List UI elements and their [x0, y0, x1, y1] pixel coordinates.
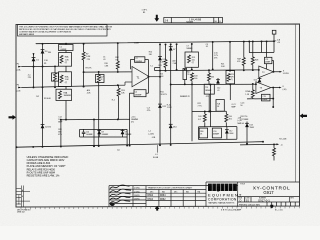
svg-text:C10: C10	[213, 131, 216, 133]
svg-text:(7): (7)	[65, 62, 68, 64]
notice box top-left	[18, 25, 108, 36]
wire C2 loop	[130, 60, 148, 94]
diode D12A	[216, 78, 220, 84]
svg-text:7.7%: 7.7%	[198, 105, 202, 107]
svg-text:1/8/65: 1/8/65	[134, 199, 140, 201]
wire left vertical V33	[33, 54, 35, 88]
diode D12	[225, 127, 229, 140]
svg-text:C17 MMF: C17 MMF	[241, 119, 250, 121]
svg-text:1.0MMF: 1.0MMF	[60, 49, 68, 51]
svg-text:l: l	[234, 185, 236, 192]
svg-text:d: d	[208, 185, 212, 192]
diode D10	[158, 57, 162, 61]
svg-text:680: 680	[183, 96, 186, 98]
svg-text:i: i	[213, 185, 215, 192]
svg-text:D: D	[240, 198, 242, 202]
svg-text:NUMBER: NUMBER	[186, 22, 194, 24]
svg-text:i: i	[222, 185, 224, 192]
svg-text:1 OF 1: 1 OF 1	[142, 10, 148, 12]
wire T3 out	[271, 87, 279, 89]
svg-text:(7): (7)	[192, 62, 195, 64]
svg-text:(-10): (-10)	[283, 89, 287, 91]
svg-text:(+)10: (+)10	[238, 120, 242, 122]
svg-text:R15: R15	[159, 65, 162, 67]
border frame	[16, 24, 300, 207]
resistor R7	[82, 44, 85, 87]
diode D9	[121, 129, 125, 137]
wire H6	[60, 118, 129, 121]
svg-text:T-1: T-1	[150, 65, 153, 67]
diode D13	[245, 122, 249, 144]
wire C4 loop	[130, 92, 149, 94]
svg-text:CORPORATION: CORPORATION	[208, 198, 237, 202]
wire V213	[212, 42, 214, 69]
svg-text:1.7K4: 1.7K4	[167, 107, 172, 109]
svg-text:R28: R28	[255, 60, 258, 62]
wire T19 stub	[208, 94, 210, 111]
wire pair lines	[80, 129, 128, 145]
svg-text:R-1: R-1	[112, 100, 115, 102]
resistor R29	[251, 84, 254, 99]
svg-text:L-1: L-1	[148, 131, 151, 133]
resistor R12	[116, 43, 119, 72]
wire left vertical V42 bottom	[42, 87, 44, 147]
svg-text:CONTENT MADE BY DIGITAL EQUIPM: CONTENT MADE BY DIGITAL EQUIPMENT CORPOR…	[19, 31, 72, 34]
svg-text:1-10TH: 1-10TH	[283, 73, 290, 75]
svg-text:39.1: 39.1	[229, 119, 233, 121]
svg-text:L-1: L-1	[155, 154, 158, 156]
registration arrow right border (left-pointing)	[300, 114, 308, 119]
resistor R27	[251, 42, 254, 71]
svg-text:A17: A17	[187, 71, 190, 74]
wire V261	[261, 41, 263, 52]
wire F2 line	[22, 85, 118, 87]
svg-text:100MMF: 100MMF	[86, 134, 93, 136]
wire V98	[84, 72, 132, 146]
conversion chart	[146, 189, 206, 191]
svg-text:R9 27K: R9 27K	[86, 68, 93, 70]
ink blot	[110, 203, 115, 206]
title section	[206, 181, 300, 183]
approvals + chart top edge	[109, 185, 238, 187]
svg-text:1.0M: 1.0M	[86, 56, 91, 58]
wire V129	[129, 119, 131, 145]
output arrow H6 node	[277, 143, 280, 145]
resistor box R30	[199, 128, 207, 138]
svg-text:RESISTORS ARE 1/4W, 1%: RESISTORS ARE 1/4W, 1%	[27, 174, 60, 178]
approval rows	[109, 188, 146, 190]
wire V230	[229, 84, 231, 100]
potentiometer R23 box	[229, 42, 231, 71]
node J1 tap	[156, 145, 158, 153]
diode D7	[169, 47, 173, 51]
capacitor C11	[265, 57, 272, 63]
resistor R26A	[225, 111, 228, 126]
diode D8	[97, 129, 101, 137]
wire H13	[199, 138, 237, 140]
svg-text:MAYNARD. MASSACHUSETTS: MAYNARD. MASSACHUSETTS	[209, 201, 236, 204]
resistor R20	[208, 70, 211, 84]
svg-text:C11: C11	[265, 59, 268, 61]
svg-text:240: 240	[149, 54, 152, 56]
left edge of approvals table	[108, 186, 110, 207]
bottom ruler ticks	[21, 206, 299, 209]
svg-text:750MMF: 750MMF	[125, 134, 132, 136]
svg-text:REPRODUCED OR PROPRIETARY OF N: REPRODUCED OR PROPRIETARY OF NATURE AND …	[19, 28, 112, 31]
capacitor C2	[135, 57, 145, 63]
diode D2	[41, 125, 45, 129]
wire H8 left up	[248, 42, 250, 53]
svg-text:180MMF: 180MMF	[64, 95, 72, 97]
capacitor C13	[262, 94, 271, 101]
potentiometer R19 box	[191, 44, 193, 52]
approval scribbles	[110, 185, 131, 203]
DEC digital logo boxes	[208, 184, 237, 193]
svg-text:(7): (7)	[65, 82, 68, 84]
svg-text:1K 47%: 1K 47%	[161, 94, 168, 96]
capacitor C15A	[82, 129, 86, 137]
capacitor C4	[134, 90, 146, 97]
svg-text:47%: 47%	[58, 134, 62, 136]
svg-text:DRB 102: DRB 102	[17, 212, 25, 214]
rail H10	[171, 83, 256, 85]
wire left vertical V42 top	[42, 44, 44, 88]
resistor R8 box	[96, 75, 105, 83]
svg-text:50MMF: 50MMF	[262, 99, 267, 101]
capacitor box C10	[212, 128, 221, 138]
svg-text:D2 1N: D2 1N	[45, 127, 51, 129]
wire V60	[60, 120, 62, 147]
svg-text:.01: .01	[206, 46, 209, 48]
box T19	[204, 84, 214, 94]
svg-text:J-10B: J-10B	[134, 42, 139, 44]
svg-text:180MMF: 180MMF	[102, 134, 109, 136]
svg-text:B - x 16: B - x 16	[275, 210, 283, 212]
svg-text:SS: SS	[246, 198, 250, 202]
wire V176	[176, 44, 178, 70]
wire H12	[199, 126, 237, 128]
node B label	[274, 40, 276, 42]
wire H18	[192, 110, 226, 112]
wire H12-H13 sides	[199, 127, 237, 140]
input terminal F1	[18, 66, 21, 68]
svg-text:47%: 47%	[214, 57, 218, 59]
svg-text:C4: C4	[135, 92, 137, 94]
svg-text:G917-0-1: G917-0-1	[258, 199, 270, 203]
diode D11	[158, 104, 162, 108]
svg-text:180MMF: 180MMF	[135, 94, 142, 96]
potentiometer box R5	[59, 72, 72, 87]
svg-text:THIS DOCUMENT IS FURNISHED ONL: THIS DOCUMENT IS FURNISHED ONLY FOR TEST…	[19, 25, 113, 28]
wire jog 154	[155, 67, 160, 69]
relay box RB3K	[216, 100, 224, 112]
resistor R19B	[191, 73, 194, 85]
diode D3	[41, 50, 45, 54]
logo block right edge	[237, 182, 239, 207]
op-amp T1	[118, 67, 160, 87]
diode D11B	[169, 124, 173, 128]
wire F1 line	[22, 65, 59, 67]
svg-text:D15: D15	[254, 80, 257, 82]
svg-text:R-2: R-2	[36, 96, 39, 98]
svg-text:47%: 47%	[147, 110, 151, 112]
svg-text:R29A: R29A	[245, 90, 250, 93]
notes block bottom-left	[27, 155, 69, 178]
revision block bottom-left	[16, 186, 30, 207]
wire T2 out	[274, 71, 280, 73]
svg-text:47J: 47J	[131, 122, 134, 124]
svg-text:+6: +6	[281, 145, 283, 147]
svg-text:A17: A17	[100, 76, 103, 79]
svg-text:1/7/65: 1/7/65	[134, 188, 140, 190]
svg-text:.01: .01	[217, 90, 220, 92]
wire box stubs	[65, 66, 67, 119]
diode D15	[258, 78, 262, 83]
svg-text:T.B +10B: T.B +10B	[279, 139, 287, 141]
wire H16	[247, 98, 273, 100]
capacitor C16	[272, 30, 276, 34]
svg-text:PRINTED CIRCUIT REV: PRINTED CIRCUIT REV	[239, 204, 261, 206]
svg-text:D7: D7	[173, 49, 175, 51]
rail H4	[155, 69, 259, 72]
svg-text:D14: D14	[173, 127, 176, 129]
wire V210	[209, 85, 211, 127]
svg-text:MMF+B: MMF+B	[238, 123, 245, 125]
svg-text:D664: D664	[148, 199, 154, 201]
resistor R13	[117, 85, 120, 119]
svg-text:(+10V): (+10V)	[148, 133, 154, 135]
svg-text:180MMF: 180MMF	[213, 133, 219, 135]
registration arrow bottom (up)	[155, 206, 160, 211]
resistor R2 box	[52, 73, 59, 81]
wire bottom bus	[16, 142, 263, 148]
wire H8	[249, 51, 274, 53]
svg-text:REVISIONS: REVISIONS	[19, 194, 21, 205]
svg-text:1/7/65: 1/7/65	[134, 191, 140, 193]
svg-text:g: g	[216, 185, 220, 192]
inner right margin line	[295, 24, 297, 182]
wire H7B	[240, 143, 277, 146]
wire V274 top	[273, 34, 275, 52]
printed circuit rev tick boxes	[272, 202, 296, 206]
svg-text:R1: R1	[44, 63, 46, 65]
delay box R6	[56, 89, 72, 100]
resistor R14	[164, 44, 167, 70]
svg-text:D664: D664	[148, 195, 154, 197]
top reference slip	[164, 18, 223, 23]
wire V156	[159, 44, 161, 145]
svg-text:O664: O664	[229, 133, 233, 135]
output terminal N1	[280, 71, 283, 73]
svg-text:+10: +10	[277, 42, 280, 44]
svg-text:500: 500	[211, 76, 214, 78]
svg-text:C13: C13	[263, 96, 266, 98]
svg-text:1N4: 1N4	[48, 52, 51, 54]
wire top bus	[36, 41, 274, 44]
svg-text:B1: B1	[143, 12, 145, 14]
resistor box A17	[183, 69, 187, 80]
svg-text:D664: D664	[160, 195, 166, 197]
wire V190 lower	[191, 84, 193, 141]
svg-text:500: 500	[194, 78, 197, 80]
svg-text:.01: .01	[103, 59, 106, 61]
output terminal N2	[279, 87, 282, 89]
capacitor C1	[59, 44, 74, 53]
resistor R31B	[273, 144, 276, 160]
diode D1	[32, 58, 36, 62]
svg-text:50: 50	[240, 105, 242, 107]
op-amp T2	[259, 66, 274, 78]
svg-text:8.2: 8.2	[198, 119, 201, 121]
svg-text:1/8/65: 1/8/65	[134, 195, 140, 197]
svg-text:a: a	[229, 185, 233, 192]
svg-text:T19: T19	[205, 87, 208, 89]
svg-text:8-U4B: 8-U4B	[153, 157, 159, 159]
svg-text:D11: D11	[163, 106, 166, 108]
wire T3 feedback	[272, 88, 274, 107]
label cluster extras	[28, 51, 257, 112]
resistor R25	[203, 112, 206, 127]
wire V129 up	[129, 93, 131, 119]
svg-text:50MMF: 50MMF	[186, 48, 193, 50]
svg-text:B: B	[22, 196, 23, 198]
registration arrow left border (right-pointing)	[9, 115, 17, 120]
svg-text:50MMF: 50MMF	[265, 62, 270, 64]
input terminal F2	[18, 87, 21, 89]
registration arrow top (down)	[154, 15, 159, 22]
svg-text:47J: 47J	[206, 96, 209, 98]
svg-text:TRANSISTOR & DIODE CONVERSION: TRANSISTOR & DIODE CONVERSION CHART	[148, 187, 193, 190]
black marker on border	[270, 205, 273, 209]
op-amp T3	[256, 82, 271, 94]
svg-text:MAYNARD MASS: MAYNARD MASS	[19, 33, 35, 36]
svg-text:R31 750: R31 750	[241, 116, 248, 118]
wire V243	[242, 42, 245, 71]
potentiometer box R4	[59, 53, 72, 67]
wire V170	[170, 44, 172, 145]
svg-text:1 8-U4 8/8: 1 8-U4 8/8	[189, 18, 202, 22]
svg-text:180MMF: 180MMF	[135, 61, 142, 63]
svg-text:1N98: 1N98	[250, 127, 254, 129]
svg-text:D662: D662	[160, 199, 166, 201]
wire V94	[93, 120, 95, 147]
svg-text:TITLE: TITLE	[240, 183, 246, 185]
wire C11 stubs	[267, 41, 274, 71]
svg-text:A14: A14	[87, 89, 90, 92]
svg-text:R3 4.0K: R3 4.0K	[44, 98, 52, 100]
svg-text:t: t	[225, 185, 227, 192]
svg-text:G917: G917	[263, 190, 274, 195]
svg-text:6 E TI 14.0-476 AMP: 6 E TI 14.0-476 AMP	[221, 209, 242, 212]
